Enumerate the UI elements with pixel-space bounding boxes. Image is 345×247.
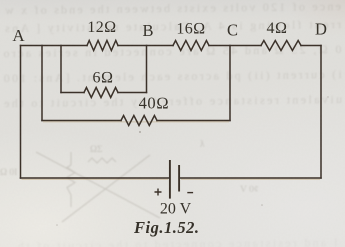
wire 40-ohm branch drop at A side <box>41 46 43 121</box>
wire node C drop <box>229 46 231 121</box>
scan warm fringe under dark lines <box>22 122 321 179</box>
resistor R4 6 ohm <box>84 88 118 98</box>
wire 40-ohm row right <box>157 120 230 122</box>
wire 6-ohm row left <box>61 92 84 94</box>
battery minus sign <box>187 192 193 194</box>
dust specks <box>56 96 328 226</box>
wire 40-ohm row left <box>42 120 121 122</box>
battery B1 20V plates <box>170 160 179 199</box>
wire 6-ohm branch drop at A side <box>60 46 62 93</box>
wire bottom left to battery <box>21 177 170 179</box>
wire right rail from D down <box>320 46 322 179</box>
wire 16-ohm to 4-ohm through node C <box>209 45 261 47</box>
circuit ink <box>21 41 322 179</box>
paper grain <box>0 0 1 1</box>
battery short plate (-) <box>178 165 180 192</box>
wire 4-ohm to node D corner <box>301 45 321 47</box>
wire 6-ohm row right <box>118 92 147 94</box>
battery long plate (+) <box>169 160 171 199</box>
resistor R1 12 ohm <box>87 41 118 51</box>
resistor R2 16 ohm <box>173 41 209 51</box>
wire node B drop <box>146 46 148 93</box>
battery plus sign <box>155 189 194 196</box>
wire A to 12-ohm (top wire, node A corner) <box>21 45 88 47</box>
faint show-through figure marks from reverse page <box>36 152 160 222</box>
resistor R5 40 ohm <box>121 116 157 126</box>
wire 12-ohm to 16-ohm through node B <box>118 45 173 47</box>
wire bottom right from battery <box>180 177 321 179</box>
resistor R3 4 ohm <box>261 41 301 51</box>
wire left rail from A down <box>20 46 22 179</box>
